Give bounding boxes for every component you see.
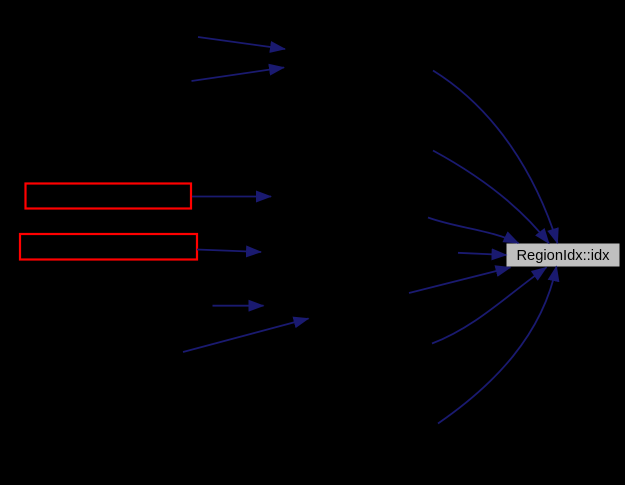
svg-text:RegionIdx::idx: RegionIdx::idx (516, 248, 610, 264)
